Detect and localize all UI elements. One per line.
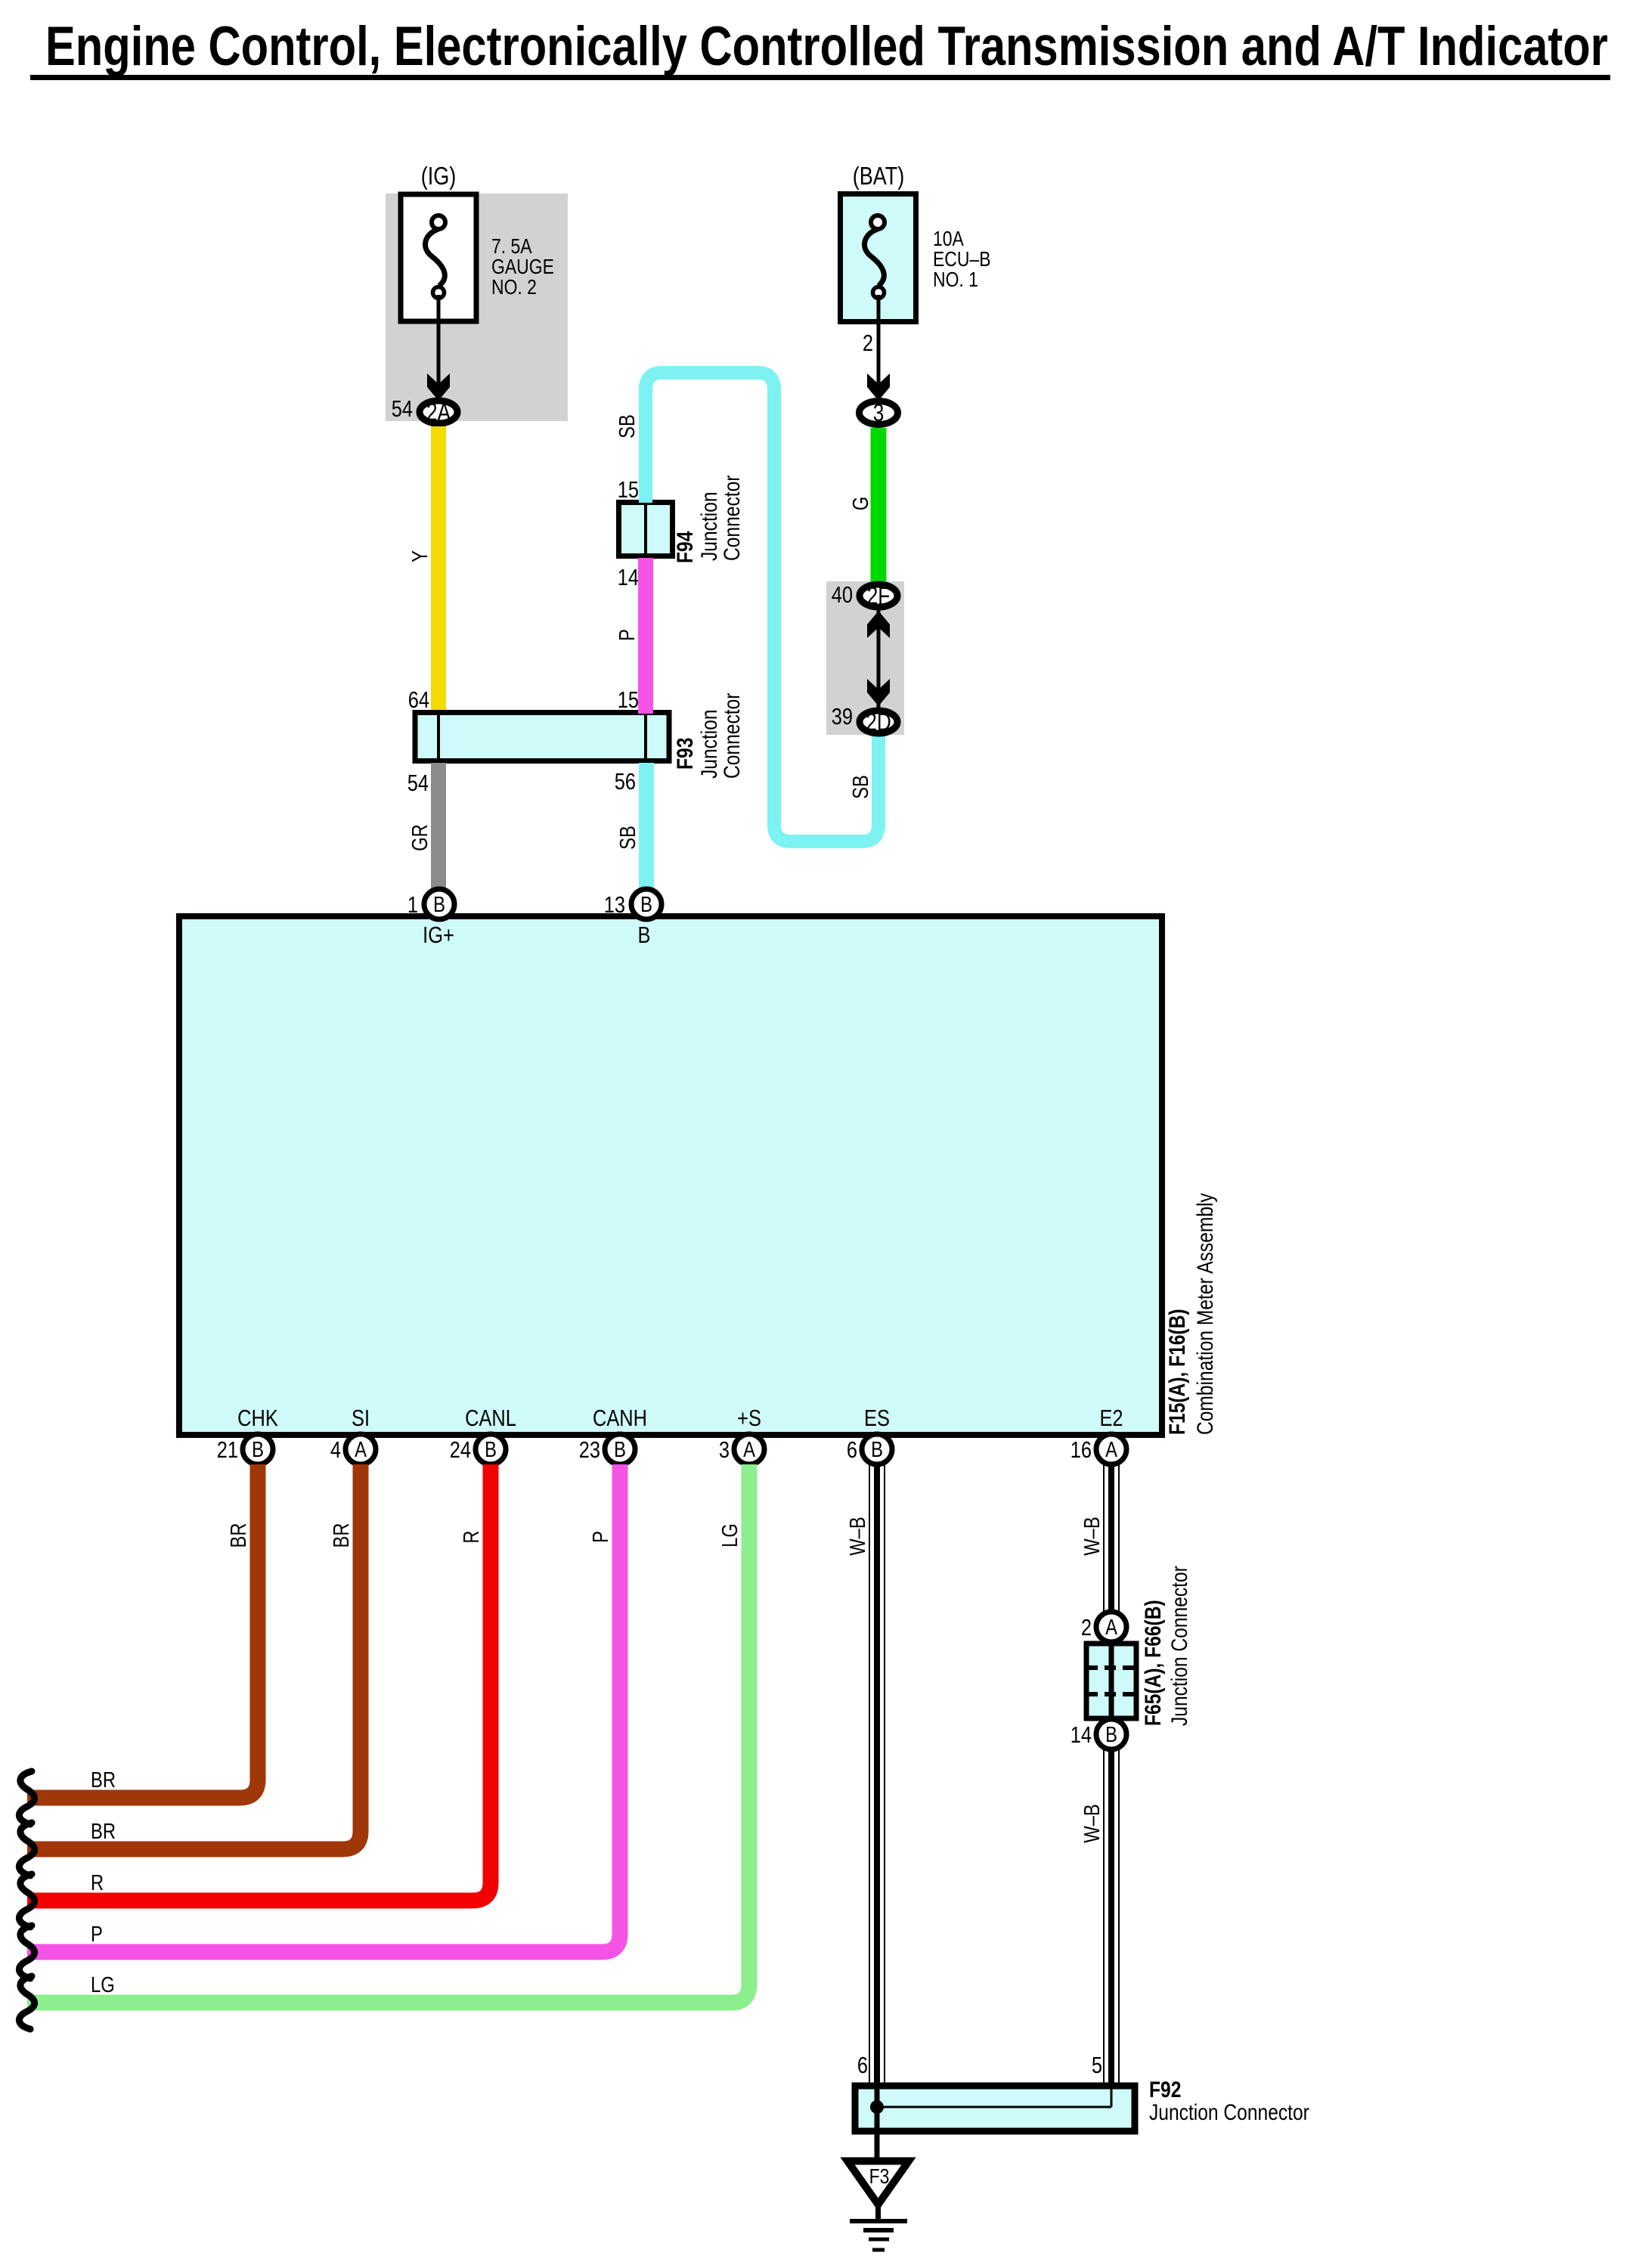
svg-text:P: P [615, 629, 640, 641]
svg-text:3: 3 [719, 1437, 730, 1464]
svg-text:Connector: Connector [719, 693, 745, 779]
svg-text:SI: SI [352, 1405, 370, 1432]
svg-text:W–B: W–B [845, 1517, 870, 1556]
wire R from CANL [27, 1464, 491, 1901]
svg-text:54: 54 [392, 396, 413, 423]
svg-text:NO. 2: NO. 2 [491, 276, 537, 299]
svg-text:(IG): (IG) [421, 163, 457, 191]
svg-text:A: A [1105, 1437, 1117, 1462]
svg-text:39: 39 [832, 704, 853, 730]
svg-text:Junction: Junction [696, 491, 722, 561]
svg-text:W–B: W–B [1080, 1804, 1105, 1843]
shade box 2F/2D [826, 581, 904, 735]
svg-text:E2: E2 [1099, 1405, 1123, 1432]
fuse block shade (IG) [386, 194, 568, 421]
svg-text:F3: F3 [869, 2165, 890, 2189]
svg-text:B: B [252, 1437, 264, 1462]
fuse 10A ECU-B NO.1 body [841, 194, 916, 322]
connector oval 2F [860, 584, 897, 607]
svg-text:B: B [485, 1437, 497, 1462]
connector oval 2A [420, 401, 457, 423]
junction connector F93 [415, 713, 669, 761]
svg-text:LG: LG [91, 1972, 115, 1997]
internal wire F92 [875, 2083, 880, 2107]
svg-text:ES: ES [864, 1405, 890, 1432]
wire G (green) [871, 428, 887, 584]
svg-text:F93: F93 [672, 738, 698, 770]
connector oval 2D [860, 711, 897, 733]
svg-text:B: B [640, 892, 652, 917]
svg-text:2A: 2A [426, 400, 451, 426]
svg-text:SB: SB [615, 414, 640, 438]
svg-text:BR: BR [91, 1768, 116, 1792]
svg-text:2: 2 [1081, 1615, 1092, 1641]
junction connector F65/F66 pin A [1096, 1612, 1126, 1642]
ground stem [875, 2204, 881, 2220]
meter pin A4 oval [345, 1434, 376, 1464]
meter pin A3 oval [734, 1434, 764, 1464]
svg-text:LG: LG [717, 1523, 742, 1548]
combination meter assembly box [179, 916, 1162, 1435]
svg-text:14: 14 [618, 565, 639, 591]
fuse element [864, 229, 884, 286]
svg-text:2D: 2D [866, 710, 891, 736]
svg-text:Engine Control, Electronically: Engine Control, Electronically Controlle… [45, 16, 1608, 77]
svg-text:6: 6 [857, 2053, 868, 2079]
svg-text:P: P [91, 1922, 103, 1947]
wire SB to pin 13 [639, 763, 654, 890]
svg-text:SB: SB [615, 826, 640, 850]
svg-text:SB: SB [848, 775, 873, 799]
arrow into 3 [867, 373, 890, 401]
svg-text:23: 23 [579, 1437, 600, 1464]
meter pin A16 oval [1096, 1434, 1126, 1464]
svg-text:(BAT): (BAT) [853, 163, 905, 191]
svg-text:2: 2 [863, 330, 873, 357]
arrow into 2A [427, 373, 450, 401]
svg-text:16: 16 [1071, 1437, 1092, 1464]
meter pin B24 oval [476, 1434, 506, 1464]
svg-text:6: 6 [847, 1437, 857, 1464]
wire LG from +S [27, 1464, 749, 2003]
svg-text:IG+: IG+ [423, 922, 454, 949]
wire W-B from ES [869, 1464, 885, 2083]
svg-text:BR: BR [226, 1523, 251, 1548]
wire W-B from E2 upper [1104, 1464, 1119, 1613]
svg-text:Connector: Connector [719, 476, 745, 561]
wire break squiggle P [19, 1926, 34, 1978]
svg-text:15: 15 [618, 477, 639, 503]
svg-text:Combination Meter Assembly: Combination Meter Assembly [1192, 1193, 1218, 1435]
svg-text:24: 24 [450, 1437, 471, 1464]
wire GR (gray) [431, 763, 446, 890]
svg-text:GR: GR [407, 824, 432, 851]
svg-text:R: R [459, 1530, 484, 1543]
svg-text:13: 13 [604, 892, 625, 919]
svg-text:BR: BR [91, 1819, 116, 1844]
svg-text:40: 40 [832, 582, 853, 609]
svg-text:CHK: CHK [237, 1405, 278, 1432]
fuse 7.5A GAUGE NO.2 body [401, 194, 476, 321]
svg-text:5: 5 [1092, 2053, 1102, 2079]
svg-text:W–B: W–B [1080, 1517, 1105, 1556]
svg-text:A: A [1105, 1615, 1117, 1640]
meter pin B23 oval [605, 1434, 635, 1464]
svg-text:A: A [743, 1437, 755, 1462]
wire BR from CHK [27, 1464, 258, 1798]
wire break squiggle BR1 [19, 1771, 34, 1824]
arrow up into 2F [867, 611, 890, 638]
arrow down into 2D [867, 679, 890, 706]
meter pin B21 oval [243, 1434, 273, 1464]
svg-text:G: G [848, 497, 873, 510]
wire break squiggle R [19, 1874, 34, 1927]
svg-text:21: 21 [217, 1437, 238, 1464]
svg-text:14: 14 [1071, 1722, 1092, 1749]
wire break squiggle LG [19, 1976, 34, 2029]
junction dot [870, 2100, 884, 2114]
junction connector F65/F66 body [1086, 1644, 1136, 1718]
wire break squiggle BR2 [19, 1823, 34, 1876]
junction connector F65/F66 pin B [1096, 1719, 1126, 1749]
svg-text:R: R [91, 1870, 104, 1895]
svg-text:+S: +S [737, 1405, 761, 1432]
meter pin B6 oval [862, 1434, 892, 1464]
svg-text:NO. 1: NO. 1 [933, 268, 978, 292]
fuse element [425, 229, 445, 286]
junction connector F92 body [855, 2086, 1135, 2131]
svg-text:Junction Connector: Junction Connector [1167, 1566, 1192, 1726]
pin B13 oval [631, 889, 662, 919]
svg-text:54: 54 [407, 770, 429, 797]
svg-text:4: 4 [330, 1437, 341, 1464]
wire P (pink) F94 to F93 [638, 558, 653, 714]
ground bars [850, 2219, 907, 2223]
wire P from CANH [27, 1464, 620, 1952]
svg-text:1: 1 [407, 892, 418, 919]
svg-text:CANH: CANH [593, 1405, 647, 1432]
svg-text:BR: BR [329, 1523, 354, 1548]
connector oval 3 [860, 401, 898, 425]
svg-text:B: B [638, 922, 651, 949]
svg-text:3: 3 [873, 401, 885, 427]
svg-text:2F: 2F [867, 584, 891, 610]
svg-text:P: P [588, 1531, 613, 1543]
svg-text:CANL: CANL [465, 1405, 516, 1432]
ground F3 triangle [847, 2161, 909, 2205]
wire from fuse to 2A [437, 295, 441, 384]
wire BR from SI [27, 1464, 361, 1849]
svg-text:B: B [1105, 1722, 1117, 1747]
svg-text:64: 64 [408, 687, 429, 714]
wire from fuse to 3 [877, 295, 881, 384]
svg-text:56: 56 [615, 769, 636, 795]
svg-text:F15(A), F16(B): F15(A), F16(B) [1164, 1309, 1190, 1435]
wire Y (yellow) [431, 426, 446, 717]
svg-text:B: B [614, 1437, 626, 1462]
pin B1 oval [424, 889, 454, 919]
svg-text:A: A [355, 1437, 367, 1462]
wire SB loop F94 to 2D [646, 373, 878, 841]
svg-text:Y: Y [407, 550, 432, 562]
wire W-B from F66 B to F92 [1104, 1750, 1119, 2083]
junction connector F94 [619, 503, 673, 556]
wire between 2F and 2D [877, 610, 881, 708]
svg-text:B: B [871, 1437, 883, 1462]
svg-text:F94: F94 [672, 531, 698, 563]
wire F92 to ground [875, 2107, 880, 2162]
svg-text:F65(A), F66(B): F65(A), F66(B) [1140, 1600, 1166, 1726]
svg-text:15: 15 [618, 687, 639, 714]
svg-text:B: B [433, 892, 445, 917]
svg-text:Junction: Junction [696, 709, 722, 779]
svg-text:F92: F92 [1149, 2077, 1181, 2102]
svg-text:Junction Connector: Junction Connector [1149, 2099, 1309, 2125]
